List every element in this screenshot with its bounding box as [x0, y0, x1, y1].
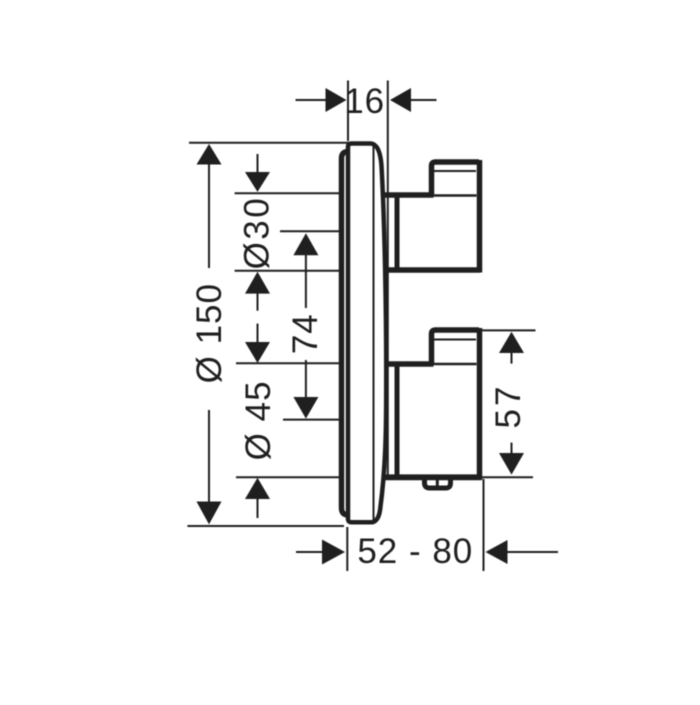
svg-text:74: 74: [286, 313, 325, 354]
svg-text:16: 16: [344, 82, 385, 121]
svg-text:Ø 45: Ø 45: [239, 380, 278, 460]
svg-text:Ø30: Ø30: [238, 196, 277, 270]
svg-text:52 - 80: 52 - 80: [357, 532, 473, 571]
svg-text:57: 57: [489, 384, 528, 429]
svg-text:Ø 150: Ø 150: [190, 283, 229, 383]
